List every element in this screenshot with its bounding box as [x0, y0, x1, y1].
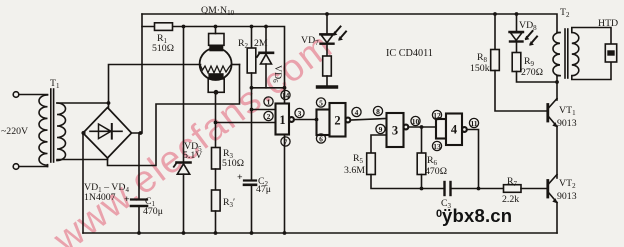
node R6 tap — [420, 125, 424, 129]
svg-text:+: + — [124, 194, 130, 205]
wire secondary top to bridge top — [57, 103, 109, 107]
wire VD6 bottom lead — [266, 64, 285, 88]
wire gate1 output — [294, 119, 317, 121]
wire top positive rail — [142, 14, 557, 32]
wire pin7 of gate1 to ground rail — [284, 135, 286, 234]
wire R6 bottom lead — [421, 175, 423, 189]
transformer T2 core — [564, 29, 566, 78]
gate digits — [279, 113, 458, 138]
pin 8 — [373, 106, 382, 115]
pin 6 — [316, 134, 325, 143]
wire R2 bottom lead down to C2 — [251, 73, 253, 180]
node VD8 rail1 — [515, 12, 519, 16]
svg-text:5.1V: 5.1V — [183, 150, 202, 161]
pin number circles — [264, 90, 479, 150]
wire VD5 vertical top — [183, 27, 185, 163]
bridge rectifier diamond — [83, 108, 132, 159]
wire pin1 of gate 1 — [252, 109, 276, 111]
wire pin2 of gate 1 — [216, 122, 276, 124]
wire second positive rail — [142, 27, 285, 104]
node T2 primary bottom — [555, 80, 559, 84]
wire pin9 feedback input of gate3 — [371, 135, 387, 153]
svg-text:2: 2 — [334, 114, 340, 128]
wire gate2 to gate3 — [350, 119, 386, 121]
LED VD7 — [320, 34, 333, 43]
svg-text:~220V: ~220V — [1, 126, 28, 137]
svg-text:14: 14 — [282, 91, 290, 100]
svg-text:2M: 2M — [254, 38, 268, 49]
bridge inner diode — [90, 124, 122, 139]
resistor R6 — [417, 153, 426, 175]
node R2 to VD6 line — [250, 86, 254, 90]
svg-text:12: 12 — [433, 111, 441, 120]
NAND gate U1A gate 1 — [276, 104, 294, 135]
node pin14 line — [283, 86, 287, 90]
node C2 ground — [250, 231, 254, 235]
wire sensor bottom electrode down — [215, 92, 217, 147]
wire R3p to rail — [215, 211, 217, 233]
svg-text:13: 13 — [433, 142, 441, 151]
pin 11 — [469, 118, 478, 127]
wire secondary to HTD top — [572, 28, 611, 45]
pin 9 — [376, 124, 385, 133]
node VD6 rail2 — [264, 25, 268, 29]
node AC top — [107, 101, 111, 105]
wire input bottom — [19, 166, 48, 168]
wire R3 to R3p — [215, 169, 217, 190]
wire gate4 output down — [467, 130, 479, 189]
svg-text:HTD: HTD — [598, 18, 618, 29]
svg-text:+: + — [237, 172, 243, 183]
wire gate3 output to gate4 — [408, 126, 436, 128]
zener diode VD5 — [174, 163, 191, 175]
node sensor to pin2 — [214, 121, 218, 125]
svg-text:11: 11 — [470, 119, 477, 128]
node R8 rail1 — [493, 12, 497, 16]
svg-text:3.6M: 3.6M — [344, 165, 365, 176]
pin 2 — [264, 111, 273, 120]
wire heater right stub — [231, 64, 239, 66]
resistor R1 on second rail — [155, 23, 173, 31]
wire C3 to R7 — [479, 188, 504, 190]
capacitor C2 — [244, 181, 256, 234]
piezo sounder HTD — [605, 44, 616, 62]
svg-text:R3′: R3′ — [223, 197, 235, 209]
stamp text ybx8.cn — [436, 205, 512, 226]
transformer T1 secondary winding — [57, 103, 66, 161]
wire bridge minus corner down to bottom rail — [82, 134, 84, 233]
wire R7 to VT2 base — [521, 188, 548, 190]
wire junction line y88 — [252, 87, 267, 89]
lightning arrows of VD7 — [333, 27, 346, 41]
ground bar under R4 — [318, 85, 337, 88]
wire sensor top to rail2 — [215, 27, 217, 34]
wire R8 top lead — [494, 14, 496, 50]
svg-text:8: 8 — [376, 107, 380, 116]
lightning arrows of VD8 — [525, 31, 537, 46]
svg-text:47μ: 47μ — [256, 184, 271, 195]
wire VD5 bottom — [183, 174, 185, 233]
LED VD8 — [510, 32, 524, 42]
zener diode VD6 — [257, 53, 273, 64]
node gate4 output to RC line — [477, 187, 481, 191]
pin 4 — [352, 107, 361, 116]
pin 12 — [432, 110, 441, 119]
NAND gate U1D gate 4 with tied inputs — [436, 114, 467, 146]
node VD5 ground — [182, 231, 186, 235]
node R2 rail2 — [250, 25, 254, 29]
wire VT1 emitter to VT2 collector — [556, 127, 558, 179]
node R3p ground — [214, 231, 218, 235]
pin 1 — [264, 97, 273, 106]
wire VD7 to R4 — [326, 44, 328, 56]
wire secondary to HTD bottom — [572, 62, 611, 80]
wire R2 top lead — [251, 27, 253, 49]
resistor R5 — [367, 153, 376, 175]
svg-text:4: 4 — [451, 123, 458, 137]
transistor VT2 — [548, 175, 558, 204]
wire VD7 top lead — [326, 14, 328, 34]
NAND gate U1C gate 3 — [387, 113, 409, 147]
resistor R3 prime — [212, 190, 221, 211]
watermark www.elecfans.com — [45, 25, 340, 247]
svg-text:ÿbx8.cn: ÿbx8.cn — [442, 205, 512, 226]
resistor R8 — [491, 50, 500, 71]
svg-text:9: 9 — [379, 125, 383, 134]
transformer T1 primary winding — [39, 95, 48, 165]
wire bridge bottom jog to heater return — [108, 65, 240, 166]
node bridge plus — [139, 131, 143, 135]
resistor R3 — [212, 148, 221, 170]
svg-text:2: 2 — [267, 112, 271, 121]
node gate2 input — [315, 118, 319, 122]
svg-text:510Ω: 510Ω — [222, 158, 244, 169]
node bridge minus corner — [81, 131, 85, 135]
svg-text:7: 7 — [284, 137, 288, 146]
node sensor top rail2 — [214, 25, 218, 29]
wire VT2 emitter to bottom rail — [556, 203, 558, 234]
svg-text:470μ: 470μ — [143, 206, 163, 217]
capacitor C3 — [445, 182, 479, 195]
pin 5 — [316, 98, 325, 107]
resistor R9 — [512, 53, 521, 72]
svg-text:1: 1 — [267, 97, 271, 106]
capacitor C1 — [131, 133, 147, 233]
pin 3 — [295, 108, 304, 117]
pin 13 — [432, 141, 441, 150]
svg-text:2.2k: 2.2k — [502, 194, 519, 205]
wire T2 primary bottom to VT1 collector — [556, 76, 558, 100]
terminal input top — [13, 92, 19, 98]
gas sensor QM-N10 — [200, 34, 232, 95]
terminal input bottom — [13, 164, 19, 170]
node pin1 wire — [250, 108, 254, 112]
svg-text:IC CD4011: IC CD4011 — [386, 48, 433, 59]
resistor R2 — [247, 48, 256, 73]
svg-text:1N4007: 1N4007 — [84, 192, 116, 203]
svg-text:3: 3 — [298, 109, 302, 118]
wire R8 to VT1 base — [495, 71, 548, 112]
wire VD8 top lead — [516, 14, 518, 32]
svg-text:6: 6 — [319, 134, 323, 143]
svg-text:3: 3 — [392, 124, 398, 138]
pin 14 — [281, 90, 290, 99]
svg-text:150k: 150k — [470, 63, 490, 74]
node C1 ground — [137, 231, 141, 235]
wire left vertical from rail to bridge plus corner — [132, 14, 143, 133]
wire VD8 to R9 — [516, 42, 518, 53]
svg-text:270Ω: 270Ω — [521, 67, 543, 78]
svg-text:470Ω: 470Ω — [425, 166, 447, 177]
svg-text:510Ω: 510Ω — [152, 43, 174, 54]
node pin7 ground — [283, 231, 287, 235]
wire secondary bottom to bridge bottom corner — [57, 158, 108, 161]
resistor R4 unlabelled — [323, 56, 332, 76]
transistor VT1 — [548, 99, 558, 128]
node A R6 bottom — [420, 187, 424, 191]
wire input top — [19, 94, 48, 96]
transformer T2 secondary winding — [572, 33, 579, 76]
wire VD6 top lead — [265, 27, 267, 53]
svg-text:9013: 9013 — [557, 191, 577, 202]
wire R5 bottom to node A — [371, 175, 443, 189]
LED VD7 chain from rail — [325, 12, 329, 16]
svg-text:10: 10 — [412, 117, 420, 126]
transformer T1 core — [50, 89, 52, 162]
pin 10 — [411, 116, 420, 125]
wire R9 bottom to T2 primary bottom line — [517, 72, 558, 83]
svg-text:4: 4 — [355, 108, 359, 117]
wire R6 top lead — [421, 127, 423, 153]
wire R4 to ground bar — [326, 76, 328, 86]
resistor R7 — [504, 185, 522, 193]
transformer T2 primary winding — [553, 33, 560, 76]
svg-text:5: 5 — [319, 98, 323, 107]
pin 7 — [281, 137, 290, 146]
svg-text:1: 1 — [279, 113, 285, 127]
NAND gate U1B gate 2 with tied inputs — [317, 103, 351, 137]
node VD5 rail2 — [182, 25, 186, 29]
svg-text:9013: 9013 — [557, 118, 577, 129]
wire heater AC branch: bridge top up and right to sensor heater — [109, 65, 201, 104]
wire bottom rail — [83, 232, 557, 234]
